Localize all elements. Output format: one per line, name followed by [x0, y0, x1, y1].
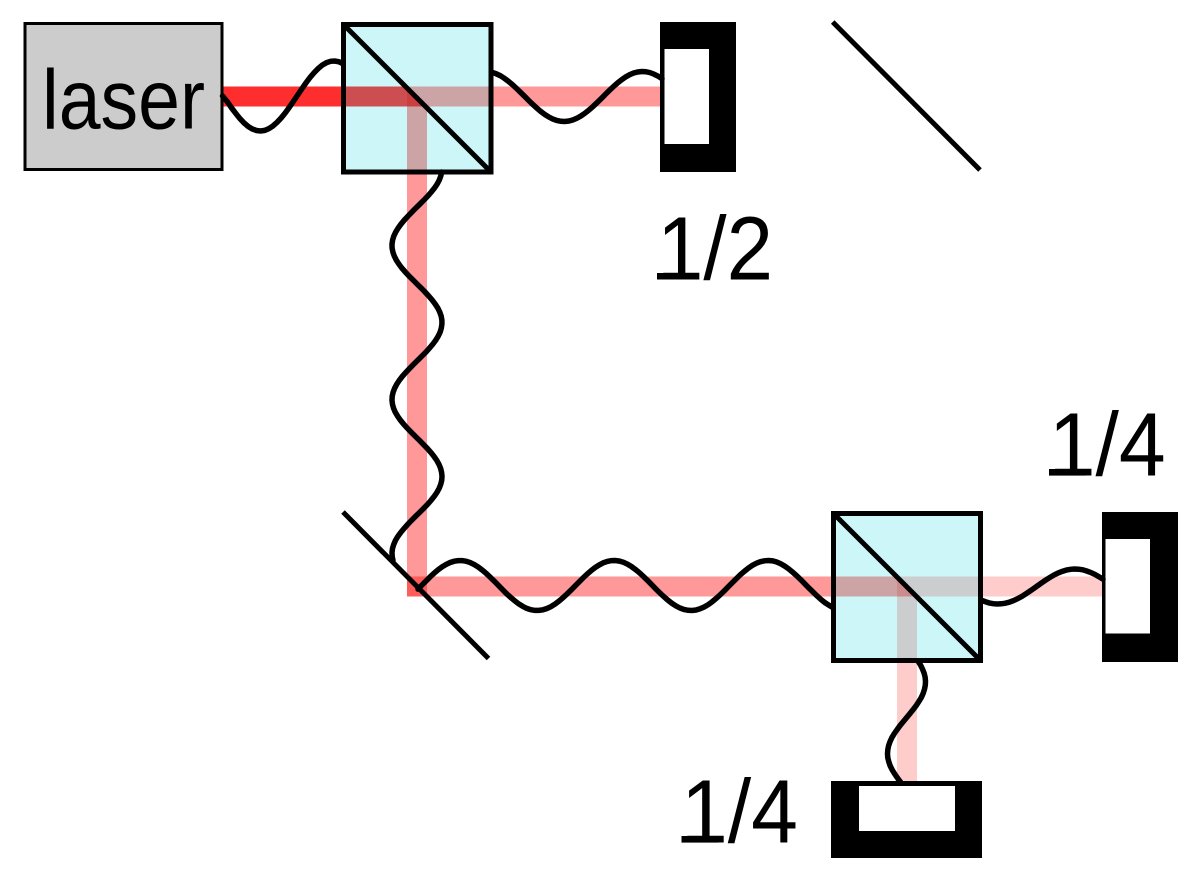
svg-text:laser: laser: [42, 53, 205, 147]
svg-text:1/4: 1/4: [681, 763, 798, 863]
wave: laser to BS1: [223, 61, 344, 131]
label 1/4 (right): [1049, 396, 1166, 496]
svg-text:1/2: 1/2: [657, 199, 773, 299]
quarter-wave plate (bottom): [831, 781, 982, 858]
beam: laser to BS1 (strong red): [223, 87, 426, 107]
half-wave plate (top): [660, 22, 736, 172]
label 1/4 (bottom): [681, 763, 798, 863]
beam: BS1 transmitted to half-wave plate: [406, 87, 661, 107]
svg-text:1/4: 1/4: [1049, 396, 1166, 496]
beam: BS1 reflected downward: [407, 88, 427, 597]
wave: BS1 down to mirror: [392, 172, 442, 561]
wave: BS2 to right quarter-wave plate: [981, 569, 1103, 604]
beamsplitter cube BS2: [834, 514, 981, 661]
label 1/2: [657, 199, 773, 299]
wave: BS1 to half-wave plate: [492, 72, 662, 122]
beam: BS2 reflected down to bottom quarter-wave plate: [897, 577, 917, 781]
wave: mirror to BS2: [418, 561, 833, 611]
beam: mirror to BS2: [407, 577, 917, 597]
laser box: [25, 24, 222, 170]
beam: BS2 transmitted to right quarter-wave plate: [897, 577, 1103, 597]
beamsplitter cube BS1: [344, 25, 492, 173]
quarter-wave plate (right): [1102, 512, 1178, 662]
mirror upper-right: [833, 22, 980, 170]
mirror lower-left: [343, 512, 489, 659]
wave: BS2 down to bottom quarter-wave plate: [888, 661, 926, 782]
